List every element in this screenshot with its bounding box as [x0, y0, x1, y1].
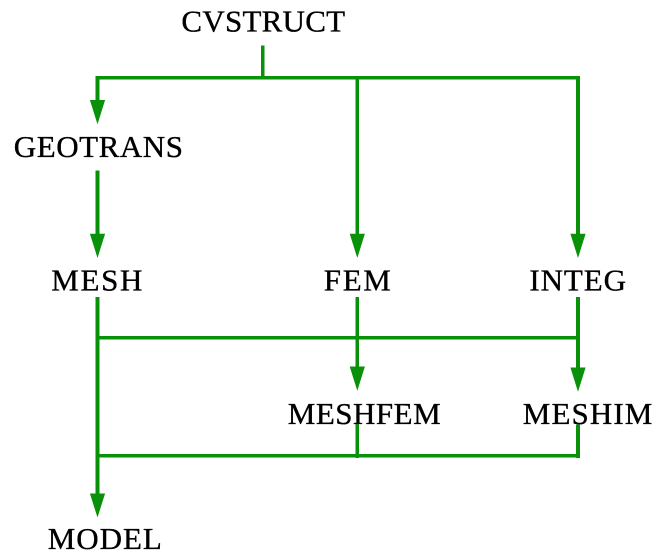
wire FEM down to MESHFEM arrow — [356, 297, 360, 367]
svg-text:GEOTRANS: GEOTRANS — [14, 129, 184, 164]
svg-text:MESHIM: MESHIM — [523, 396, 654, 431]
svg-text:MESHFEM: MESHFEM — [288, 396, 441, 431]
wire GEOTRANS to MESH — [96, 171, 100, 235]
arrow to MESHFEM — [350, 367, 365, 391]
svg-text:INTEG: INTEG — [529, 263, 626, 298]
wire below MESHIM to H3 — [576, 425, 580, 458]
wire H1 to FEM — [356, 76, 360, 235]
arrow to MODEL — [90, 494, 105, 518]
wire MESH down to MODEL arrow — [96, 297, 100, 495]
wire top horizontal bus H1 — [96, 76, 580, 80]
wire below MESHFEM to H3 — [356, 424, 360, 458]
wire middle horizontal bus H2 — [96, 336, 580, 340]
wire left drop from H1 — [96, 76, 100, 102]
svg-text:FEM: FEM — [324, 263, 393, 298]
svg-text:MESH: MESH — [51, 263, 144, 298]
arrow to GEOTRANS — [90, 100, 105, 124]
arrow to MESHIM — [570, 368, 585, 392]
wire INTEG down to MESHIM arrow — [576, 297, 580, 368]
arrow to MESH — [90, 234, 105, 258]
svg-text:CVSTRUCT: CVSTRUCT — [181, 3, 345, 38]
arrow to INTEG — [570, 234, 585, 258]
arrow to FEM — [350, 234, 365, 258]
svg-text:MODEL: MODEL — [48, 521, 163, 556]
wire H1 to INTEG — [576, 76, 580, 235]
wire bottom horizontal bus H3 — [96, 454, 580, 458]
wire stem below CVSTRUCT — [261, 46, 265, 80]
